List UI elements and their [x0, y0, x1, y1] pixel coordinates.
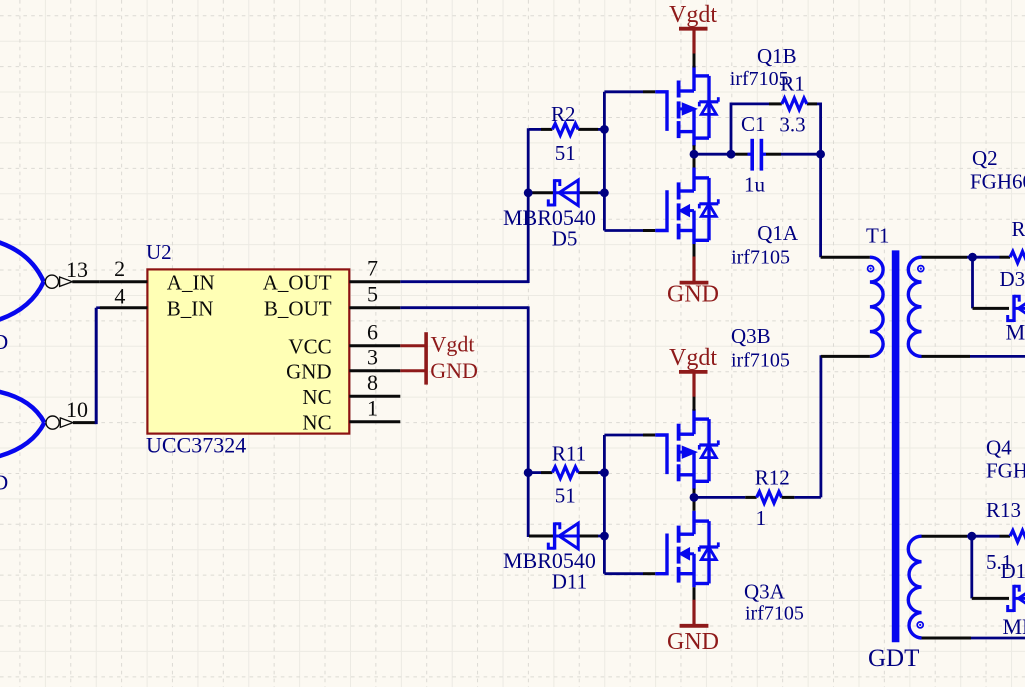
wire R12 right	[782, 355, 821, 497]
polarity dot primary	[868, 266, 874, 272]
svg-text:1: 1	[367, 395, 378, 420]
pin drain to mid	[693, 154, 696, 167]
junction	[600, 468, 609, 540]
pin 13 of gate U1A	[72, 280, 100, 283]
wire sec1 branch to D3	[973, 257, 1010, 308]
capacitor C1	[748, 139, 767, 171]
junction	[524, 188, 533, 197]
svg-text:D11: D11	[552, 570, 587, 594]
junction	[816, 150, 825, 159]
transformer T1 secondary-1 winding	[908, 257, 921, 356]
value MBR0540 (D5)	[503, 205, 596, 230]
pin 6 VCC	[349, 319, 400, 345]
net label partial D (upper)	[0, 330, 8, 354]
svg-text:8: 8	[367, 370, 378, 395]
designator Q2	[972, 146, 998, 170]
diode D3 body (partial)	[1008, 295, 1025, 322]
svg-text:FGH60N60: FGH60N60	[970, 169, 1025, 193]
wire mid rail	[694, 153, 748, 156]
svg-text:irf7105: irf7105	[731, 247, 790, 269]
designator R2	[551, 102, 576, 126]
resistor R2 body	[552, 124, 578, 136]
svg-text:A_IN: A_IN	[167, 270, 215, 294]
designator Q3B	[731, 324, 771, 348]
power Vgdt symbol	[669, 345, 717, 411]
power rail Vgdt at U2 VCC	[400, 344, 426, 347]
svg-text:GND: GND	[286, 359, 332, 383]
resistor R1 body	[782, 98, 807, 110]
svg-text:Q1A: Q1A	[757, 221, 799, 245]
transformer T1 secondary-2 winding	[908, 536, 921, 638]
resistor R12 body	[757, 492, 782, 504]
power Vgdt symbol	[669, 2, 717, 68]
gate U1B output triangle	[60, 418, 73, 427]
svg-text:D: D	[0, 330, 8, 354]
svg-text:GND: GND	[667, 282, 719, 308]
svg-text:MBR0540: MBR0540	[503, 205, 596, 230]
svg-text:U2: U2	[146, 240, 172, 264]
svg-text:Vgdt: Vgdt	[431, 332, 475, 357]
comment FGH60N60 (Q4, partial)	[986, 459, 1025, 483]
svg-text:R2: R2	[551, 102, 576, 126]
svg-text:D3: D3	[1000, 267, 1025, 291]
gate U1A output triangle	[60, 277, 73, 286]
svg-text:3.3: 3.3	[779, 113, 805, 137]
pin T1 sec1 bottom	[922, 355, 971, 358]
power bar vertical	[424, 332, 428, 384]
svg-text:D13: D13	[1001, 559, 1025, 583]
value 5.1	[986, 550, 1012, 574]
junction	[600, 125, 609, 197]
pin 10 of gate U1B	[73, 421, 96, 424]
pin name B_OUT	[264, 296, 332, 320]
designator Q1A	[757, 221, 799, 245]
svg-text:GND: GND	[667, 629, 719, 655]
resistor R2 leads	[529, 128, 604, 131]
pin number 10	[66, 397, 88, 422]
pin number 2	[114, 256, 125, 281]
svg-text:GND: GND	[430, 358, 478, 383]
svg-text:FGH60N60: FGH60N60	[986, 459, 1025, 483]
svg-text:R1: R1	[780, 71, 805, 95]
comment irf7105 (Q1A)	[731, 247, 790, 269]
pin name NC (1)	[302, 410, 331, 434]
junction	[968, 253, 977, 262]
svg-text:B_IN: B_IN	[167, 296, 214, 320]
pin number 4	[114, 284, 125, 309]
power GND symbol	[667, 587, 719, 655]
designator Q1B	[757, 44, 797, 68]
pin name A_OUT	[263, 270, 332, 294]
svg-text:Q3B: Q3B	[731, 324, 771, 348]
junction mid node	[690, 493, 699, 502]
pin T1 sec1 top	[922, 256, 968, 259]
comment UCC37324	[146, 432, 246, 457]
svg-text:Q1B: Q1B	[757, 44, 797, 68]
diode D11 leads	[529, 535, 604, 538]
power text GND (U2)	[430, 358, 478, 383]
designator D5	[552, 226, 578, 250]
diode D5 schottky body	[548, 179, 578, 206]
svg-text:C1: C1	[741, 112, 766, 136]
designator R11	[552, 441, 586, 465]
wire sec2 branch to D13	[972, 536, 1009, 598]
wire gate node vertical	[603, 92, 606, 231]
pin 3 GND	[349, 344, 400, 370]
junction mid node	[690, 150, 699, 159]
wire B_OUT net	[400, 306, 528, 537]
transistor Q1B (P-ch)	[655, 66, 718, 147]
pin name GND	[286, 359, 332, 383]
designator U2	[146, 240, 172, 264]
svg-text:5: 5	[367, 281, 378, 306]
net label partial D (lower)	[0, 471, 8, 495]
svg-text:Q4: Q4	[986, 436, 1012, 460]
power GND symbol	[667, 244, 719, 308]
value MBR0540 (D11)	[503, 548, 596, 573]
transformer T1 core	[892, 250, 900, 642]
svg-text:MBR0540: MBR0540	[1006, 320, 1025, 345]
svg-text:Q3A: Q3A	[744, 580, 786, 604]
value 1	[756, 506, 767, 530]
wire to upper gate	[604, 434, 655, 437]
designator R13	[986, 498, 1021, 522]
pin name B_IN	[167, 296, 214, 320]
pin source to mid	[693, 145, 696, 154]
gate U1A output arcs	[0, 242, 44, 320]
wire sec2 top to R13	[967, 535, 1010, 538]
pin 7 A_OUT	[349, 255, 400, 281]
wire sec2 bottom	[971, 637, 1025, 640]
designator Q4	[986, 436, 1012, 460]
pin T1 sec2 top	[922, 535, 968, 538]
svg-text:A_OUT: A_OUT	[263, 270, 332, 294]
diode D13 body (partial)	[1008, 585, 1025, 612]
value 51	[555, 141, 576, 165]
transistor Q3A (N-ch)	[655, 511, 718, 588]
wire gate U1B to B_IN	[96, 308, 100, 424]
comment irf7105 (Q3A)	[745, 603, 804, 625]
wire sec1 top to R3	[967, 256, 1010, 259]
designator D11	[552, 570, 587, 594]
resistor R3 body (partial)	[1010, 251, 1025, 263]
svg-text:10: 10	[66, 397, 88, 422]
junction	[967, 532, 976, 541]
svg-text:B_OUT: B_OUT	[264, 296, 332, 320]
wire A_OUT net	[400, 128, 528, 283]
pin drain to mid	[693, 497, 696, 510]
power rail GND at U2 pin3	[400, 369, 426, 372]
pin number 13	[66, 257, 88, 282]
diode D5 leads	[529, 191, 604, 194]
value MBR0540 (D13, partial)	[1003, 614, 1025, 639]
pin 1 NC	[349, 395, 400, 421]
pin T1 primary bottom	[821, 355, 870, 358]
resistor R13 body (partial)	[1010, 530, 1025, 542]
svg-text:6: 6	[367, 319, 378, 344]
svg-text:D5: D5	[552, 226, 578, 250]
wire to lower gate	[604, 229, 655, 232]
pin 5 B_OUT	[349, 281, 400, 307]
wire R1 bridge	[731, 103, 821, 155]
gate U1B output arcs	[0, 392, 44, 457]
resistor R11 leads	[529, 471, 604, 474]
gate U1A output bubble	[45, 275, 58, 288]
svg-text:4: 4	[114, 284, 125, 309]
svg-text:R3: R3	[1012, 217, 1025, 241]
wire sec1 bottom	[970, 355, 1025, 358]
comment FGH60N60 (Q2, partial)	[970, 169, 1025, 193]
svg-text:R11: R11	[552, 441, 586, 465]
designator Q3A	[744, 580, 786, 604]
svg-text:R13: R13	[986, 498, 1021, 522]
comment irf7105 (Q1B)	[730, 68, 789, 90]
designator R1	[780, 71, 805, 95]
svg-text:1u: 1u	[744, 173, 766, 197]
pin T1 sec2 bottom	[922, 637, 972, 640]
pin name A_IN	[167, 270, 215, 294]
svg-text:GDT: GDT	[868, 645, 919, 672]
transformer T1 primary winding	[870, 257, 883, 356]
designator R12	[755, 465, 790, 489]
svg-text:irf7105: irf7105	[745, 603, 804, 625]
svg-text:D: D	[0, 471, 8, 495]
svg-text:1: 1	[756, 506, 767, 530]
svg-text:7: 7	[367, 255, 378, 280]
value 51	[555, 483, 576, 507]
svg-text:NC: NC	[302, 410, 331, 434]
svg-text:UCC37324: UCC37324	[146, 432, 246, 457]
svg-text:51: 51	[555, 483, 576, 507]
diode D11 schottky body	[548, 522, 578, 549]
designator D13 (partial)	[1001, 559, 1025, 583]
designator D3	[1000, 267, 1025, 291]
pin name NC (8)	[302, 385, 331, 409]
IC U2 body	[147, 269, 349, 433]
svg-text:13: 13	[66, 257, 88, 282]
designator C1	[741, 112, 766, 136]
svg-text:T1: T1	[866, 224, 889, 248]
svg-text:3: 3	[367, 344, 378, 369]
pin name VCC	[288, 334, 331, 358]
wire to upper gate	[604, 90, 655, 93]
wire gate node vertical	[603, 435, 606, 574]
pin source to mid	[693, 489, 696, 498]
svg-text:51: 51	[555, 141, 576, 165]
svg-text:NC: NC	[302, 385, 331, 409]
pin T1 primary top	[821, 256, 870, 259]
pin 8 NC	[349, 370, 400, 396]
svg-text:2: 2	[114, 256, 125, 281]
svg-text:Vgdt: Vgdt	[669, 345, 717, 371]
pin 4 B_IN	[100, 306, 148, 309]
resistor R11 body	[552, 467, 578, 479]
svg-text:Vgdt: Vgdt	[669, 2, 717, 28]
gate U1B output bubble	[46, 416, 59, 429]
value 3.3	[779, 113, 805, 137]
wire mid rail 2	[694, 496, 757, 499]
polarity dot secondary-1	[918, 266, 924, 272]
svg-text:MBR0540: MBR0540	[1003, 614, 1025, 639]
pin 2 A_IN	[100, 280, 148, 283]
svg-text:R12: R12	[755, 465, 790, 489]
transistor Q3B (P-ch)	[655, 409, 718, 490]
value 1u	[744, 173, 766, 197]
svg-text:irf7105: irf7105	[731, 350, 790, 372]
designator T1	[866, 224, 889, 248]
transistor Q1A (N-ch)	[655, 168, 718, 245]
value MBR0540 (D3, partial)	[1006, 320, 1025, 345]
comment GDT	[868, 645, 919, 672]
wire to T1 primary top	[819, 154, 822, 257]
wire C1 right	[766, 153, 821, 156]
svg-text:Q2: Q2	[972, 146, 998, 170]
designator R3 (partial)	[1012, 217, 1025, 241]
wire to lower gate	[604, 572, 655, 575]
comment irf7105 (Q3B)	[731, 350, 790, 372]
svg-text:VCC: VCC	[288, 334, 331, 358]
power text Vgdt (U2)	[431, 332, 475, 357]
junction	[727, 150, 736, 159]
polarity dot secondary-2	[917, 622, 923, 628]
junction	[524, 468, 533, 477]
